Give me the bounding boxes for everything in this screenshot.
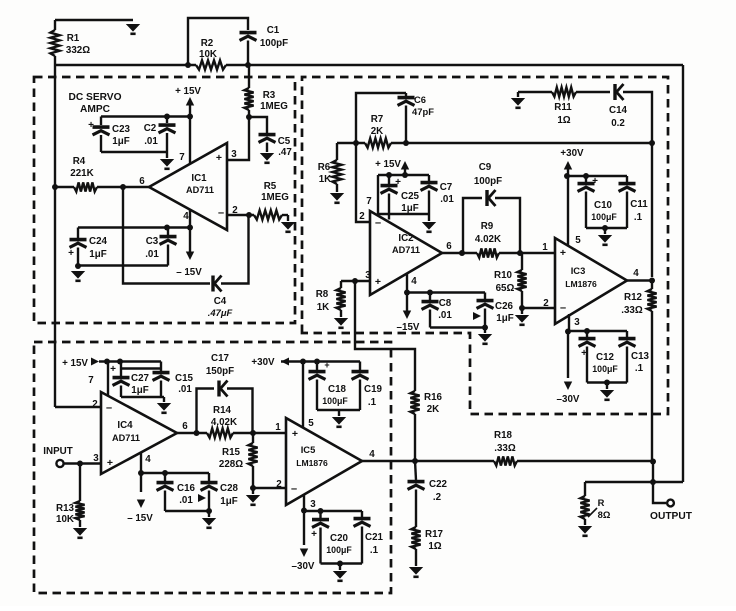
capacitor C3 <box>167 228 169 236</box>
capacitor C16 <box>164 473 166 481</box>
capacitor C28 <box>208 473 210 481</box>
resistor RL 8 ohm load <box>584 482 586 496</box>
wire +15V rail IC4 <box>99 360 161 362</box>
junction +30V <box>564 173 570 179</box>
capacitor C6 <box>398 98 415 106</box>
svg-text:C9: C9 <box>479 162 492 173</box>
svg-text:.1: .1 <box>634 212 643 223</box>
svg-text:.01: .01 <box>145 249 159 260</box>
wire IC5 pin2 <box>253 487 286 489</box>
junction C25/pin7 <box>386 172 392 178</box>
junction pin4/C8 box <box>404 290 410 296</box>
wire IC4 pin4 <box>140 452 142 473</box>
wire C6 loop <box>356 93 406 143</box>
svg-text:.1: .1 <box>368 397 377 408</box>
svg-text:R5: R5 <box>264 181 277 192</box>
svg-text:INPUT: INPUT <box>43 446 72 457</box>
svg-text:+: + <box>292 428 298 440</box>
svg-text:C16: C16 <box>177 483 196 494</box>
op-amp IC4 AD711 <box>101 392 177 474</box>
wire C10/C11 box bottom <box>586 227 627 229</box>
svg-text:.1: .1 <box>635 363 644 374</box>
svg-text:C15: C15 <box>175 373 194 384</box>
capacitor C20 <box>319 511 321 518</box>
resistor R7 <box>365 138 391 147</box>
wire C9 loop right <box>495 198 520 253</box>
wire IC4 pin7 <box>107 362 109 397</box>
junction pin2/C4 <box>246 212 252 218</box>
svg-text:100μF: 100μF <box>591 212 617 222</box>
junction R15 bottom <box>250 485 256 491</box>
wire C8 box bottom <box>430 326 485 328</box>
wire load line <box>585 481 683 483</box>
wire C23/C2 box top <box>101 115 190 117</box>
svg-text:+: + <box>68 248 74 259</box>
svg-text:IC4: IC4 <box>117 420 133 431</box>
capacitor C26 <box>484 293 486 300</box>
svg-text:C21: C21 <box>365 532 384 543</box>
wire C25/C7 box left-bottom <box>378 175 429 214</box>
svg-text:1μF: 1μF <box>401 203 418 214</box>
svg-text:+ 15V: + 15V <box>375 159 401 170</box>
svg-text:47pF: 47pF <box>412 106 434 117</box>
svg-text:.01: .01 <box>438 310 452 321</box>
svg-text:+: + <box>311 529 317 540</box>
wire IC4 pin6 <box>177 432 207 434</box>
svg-text:C13: C13 <box>631 351 650 362</box>
resistor R15 <box>252 433 254 443</box>
capacitor C27 <box>120 362 122 377</box>
capacitor C1 <box>240 33 257 41</box>
wire C12/C13 box bottom <box>587 381 627 383</box>
wire down to IC3 output node <box>651 143 653 277</box>
svg-text:C3: C3 <box>146 236 159 247</box>
wire right outer rail <box>682 65 684 482</box>
svg-text:4.02K: 4.02K <box>211 417 237 428</box>
wire C8 box top <box>407 291 485 293</box>
svg-text:2K: 2K <box>371 126 384 137</box>
wire +30V rail IC5 <box>281 360 360 362</box>
resistor R5 <box>254 210 282 219</box>
svg-text:8Ω: 8Ω <box>598 509 611 520</box>
junction pin4/R12 <box>649 278 655 284</box>
junction pin3 <box>565 329 571 335</box>
resistor R11 <box>552 87 576 96</box>
svg-text:1K: 1K <box>319 174 332 185</box>
capacitor C23 <box>100 117 102 126</box>
resistor R1 <box>54 20 56 30</box>
svg-text:C11: C11 <box>630 199 648 210</box>
junction R3 bottom <box>246 114 252 120</box>
wire C9 loop left <box>463 198 482 253</box>
wire C20 box bottom <box>321 562 363 564</box>
svg-text:C6: C6 <box>414 94 426 105</box>
wire mid rail right <box>391 142 652 144</box>
junction +15V <box>402 172 408 178</box>
svg-text:AMPC: AMPC <box>80 104 111 115</box>
junction C10 box ground <box>602 225 608 231</box>
resistor R17 <box>411 527 420 549</box>
wire R18 to output node <box>517 460 653 462</box>
ground C24 <box>71 271 85 281</box>
svg-text:.47μF: .47μF <box>208 307 233 318</box>
svg-text:.1: .1 <box>370 545 379 556</box>
svg-text:4: 4 <box>369 449 375 460</box>
svg-text:C5: C5 <box>278 136 291 147</box>
junction R4 left <box>52 184 58 190</box>
wire C27/C15 box bottom <box>121 396 164 398</box>
junction R7 left <box>353 140 359 146</box>
svg-text:LM1876: LM1876 <box>296 458 328 468</box>
right amplifier dashed box <box>302 77 668 414</box>
svg-text:R12: R12 <box>624 292 643 303</box>
svg-text:R2: R2 <box>201 38 214 49</box>
junction C17 left <box>194 430 200 436</box>
wire C25/C7 box top <box>378 174 429 176</box>
resistor R6 <box>336 143 338 160</box>
junction C12 <box>584 328 590 334</box>
junction C9 left <box>459 250 465 256</box>
junction R13 <box>77 461 83 467</box>
ground C12 box <box>600 390 614 400</box>
svg-text:3: 3 <box>310 499 316 510</box>
wire left rail <box>54 65 56 407</box>
capacitor C2 <box>166 117 168 124</box>
svg-text:7: 7 <box>88 375 94 386</box>
wire C20/C21 box top <box>304 510 362 512</box>
wire IC1 pin7 <box>189 117 191 165</box>
ground (top) <box>126 24 140 34</box>
resistor R16 <box>410 391 419 414</box>
wire IC2 pin2 <box>356 143 370 222</box>
ground C2 <box>160 159 174 169</box>
svg-text:–: – <box>106 402 112 414</box>
wire IC4 pin2 <box>55 406 101 408</box>
ground RL <box>578 526 592 536</box>
svg-text:R4: R4 <box>73 156 86 167</box>
ground C8 box <box>478 334 492 344</box>
svg-text:100pF: 100pF <box>260 38 288 49</box>
wire INPUT to pin3 <box>64 462 101 464</box>
svg-text:+: + <box>592 176 598 187</box>
capacitor C5 <box>259 135 276 143</box>
wire R11-C14 <box>576 91 610 93</box>
svg-text:2: 2 <box>92 399 98 410</box>
svg-text:–30V: –30V <box>557 394 580 405</box>
svg-text:+: + <box>324 360 329 370</box>
wire IC3 pin5 <box>567 176 569 245</box>
resistor R12 <box>651 281 653 290</box>
svg-text:C27: C27 <box>131 373 150 384</box>
svg-text:4: 4 <box>145 454 151 465</box>
ground R17 <box>409 567 423 577</box>
svg-text:C17: C17 <box>211 353 230 364</box>
svg-text:1μF: 1μF <box>131 385 148 396</box>
svg-text:C22: C22 <box>429 479 448 490</box>
svg-text:6: 6 <box>182 421 188 432</box>
wire IC2 pin3 <box>341 280 370 282</box>
svg-text:R18: R18 <box>494 430 513 441</box>
svg-text:R11: R11 <box>554 102 572 113</box>
svg-text:C4: C4 <box>214 296 227 307</box>
svg-text:–: – <box>291 483 297 495</box>
svg-text:1Ω: 1Ω <box>428 541 441 552</box>
capacitor C21 <box>361 511 363 517</box>
svg-text:.01: .01 <box>144 136 158 147</box>
junction C16 <box>162 470 168 476</box>
svg-text:+: + <box>375 276 381 288</box>
junction C6 bottom <box>403 140 409 146</box>
ground C15 <box>157 403 171 413</box>
svg-text:+: + <box>88 120 94 131</box>
wire C16 box bottom <box>165 510 209 512</box>
svg-text:R8: R8 <box>316 289 329 300</box>
wire R1 top to ground <box>55 19 133 21</box>
junction pin5 rail <box>300 359 306 365</box>
junction pin4/C16 box <box>138 470 144 476</box>
wire feedback to R16 <box>355 281 415 391</box>
svg-text:R1: R1 <box>67 33 80 44</box>
svg-text:332Ω: 332Ω <box>66 45 90 56</box>
wire IC3 pin2 <box>522 307 555 309</box>
ground R13 <box>73 528 87 538</box>
junction box top <box>164 114 170 120</box>
svg-text:65Ω: 65Ω <box>496 283 515 294</box>
capacitor C7 <box>428 175 430 181</box>
svg-text:.47: .47 <box>278 147 292 158</box>
svg-text:7: 7 <box>366 196 372 207</box>
svg-text:C10: C10 <box>594 200 613 211</box>
svg-text:– 15V: – 15V <box>127 513 153 524</box>
wire C4 loop <box>123 187 210 284</box>
junction C20 ground <box>337 561 343 567</box>
wire C23/C2 box bottom <box>101 151 167 153</box>
ground C5 <box>260 153 274 163</box>
svg-text:IC3: IC3 <box>571 265 586 276</box>
svg-text:+: + <box>395 177 401 188</box>
svg-text:100μF: 100μF <box>326 545 352 555</box>
junction pin7/+15V <box>187 114 193 120</box>
svg-text:4: 4 <box>411 276 417 287</box>
resistor R9 <box>477 248 499 257</box>
ground R10 <box>515 315 529 325</box>
junction rail/C14 <box>649 140 655 146</box>
resistor R14 <box>207 428 233 437</box>
svg-text:.33Ω: .33Ω <box>621 305 643 316</box>
svg-text:2: 2 <box>276 479 282 490</box>
svg-text:R9: R9 <box>481 221 494 232</box>
svg-text:2K: 2K <box>427 404 440 415</box>
svg-text:.01: .01 <box>178 384 192 395</box>
svg-text:C1: C1 <box>267 25 280 36</box>
svg-text:R13: R13 <box>56 503 75 514</box>
ground C16 box <box>202 518 216 528</box>
op-amp IC3 LM1876 <box>555 238 627 324</box>
capacitor C17 <box>219 381 228 397</box>
junction C20 <box>318 508 324 514</box>
resistor R4 <box>55 186 74 188</box>
svg-text:6: 6 <box>446 241 452 252</box>
capacitor C4 <box>213 276 222 292</box>
svg-text:228Ω: 228Ω <box>219 459 243 470</box>
svg-text:100pF: 100pF <box>474 176 502 187</box>
svg-text:R7: R7 <box>371 114 384 125</box>
svg-text:1: 1 <box>542 242 548 253</box>
svg-text:221K: 221K <box>70 168 93 179</box>
svg-text:+: + <box>560 247 566 259</box>
svg-text:R16: R16 <box>424 392 443 403</box>
svg-text:–30V: –30V <box>292 561 315 572</box>
svg-text:+: + <box>216 152 222 164</box>
svg-text:.01: .01 <box>440 194 454 205</box>
svg-text:R3: R3 <box>263 90 276 101</box>
junction C18 rail <box>314 359 320 365</box>
op-amp IC2 AD711 <box>370 211 442 295</box>
junction pin4/C3 box <box>187 225 193 231</box>
junction pin3 <box>301 508 307 514</box>
junction output <box>650 479 656 485</box>
svg-text:5: 5 <box>308 418 314 429</box>
svg-text:C19: C19 <box>364 384 383 395</box>
svg-text:C8: C8 <box>439 298 452 309</box>
wire IC5 pin3 <box>303 495 305 511</box>
resistor R8 <box>340 281 342 288</box>
svg-text:1: 1 <box>275 422 281 433</box>
svg-text:+: + <box>107 457 113 469</box>
svg-text:C25: C25 <box>401 191 420 202</box>
svg-text:DC SERVO: DC SERVO <box>68 92 121 103</box>
svg-text:IC2: IC2 <box>398 233 414 244</box>
junction C12 box ground <box>604 380 610 386</box>
junction R12/R18 <box>650 459 656 465</box>
svg-text:+ 15V: + 15V <box>175 86 201 97</box>
ground R11 <box>517 92 519 97</box>
svg-text:+30V: +30V <box>560 148 584 159</box>
svg-text:AD711: AD711 <box>392 245 420 255</box>
wire R2/C1 feedback loop <box>188 18 248 65</box>
wire IC5 pin4 output <box>362 460 494 462</box>
capacitor C19 <box>359 362 361 371</box>
resistor R2 <box>196 60 226 69</box>
svg-text:R15: R15 <box>222 447 241 458</box>
svg-text:1Ω: 1Ω <box>557 115 570 126</box>
bottom-left amplifier dashed box <box>34 342 391 593</box>
wire main top line left <box>55 64 196 66</box>
wire IC3 pin4 <box>627 279 652 281</box>
op-amp IC1 AD711 <box>149 143 227 230</box>
junction C1/R3 <box>245 62 251 68</box>
svg-text:R17: R17 <box>425 529 444 540</box>
wire IC3 pin3 <box>568 314 570 332</box>
svg-text:6: 6 <box>139 176 145 187</box>
junction C28 ground <box>206 508 212 514</box>
wire C24/C3 box bottom <box>78 264 168 266</box>
junction C8 top <box>427 290 433 296</box>
svg-text:.01: .01 <box>179 495 193 506</box>
svg-text:100μF: 100μF <box>322 396 348 406</box>
wire IC5 pin5 <box>302 362 304 429</box>
svg-text:1K: 1K <box>317 302 330 313</box>
svg-text:+: + <box>110 364 116 375</box>
wire C18 box bottom <box>317 409 360 411</box>
wire IC2 pin4 <box>406 273 408 303</box>
wire C17 loop left <box>197 389 215 434</box>
wire C4 loop right <box>221 215 249 284</box>
capacitor C22 <box>415 461 416 480</box>
svg-text:10K: 10K <box>56 514 74 525</box>
junction R10 bottom <box>519 305 525 311</box>
wire to output terminal <box>653 482 666 503</box>
junction R16/C22 <box>412 458 418 464</box>
svg-text:+30V: +30V <box>251 357 275 368</box>
capacitor C13 <box>626 331 628 337</box>
svg-text:C12: C12 <box>596 352 615 363</box>
capacitor C11 <box>626 176 628 182</box>
capacitor C12 <box>586 331 588 337</box>
svg-text:4: 4 <box>183 211 189 222</box>
svg-text:C2: C2 <box>144 123 157 134</box>
svg-text:1μF: 1μF <box>496 313 513 324</box>
wire R9 to IC3 pin1 <box>499 252 555 254</box>
svg-text:–: – <box>560 302 566 314</box>
op-amp IC5 LM1876 <box>286 418 362 505</box>
svg-text:1μF: 1μF <box>112 136 129 147</box>
svg-text:1MEG: 1MEG <box>261 192 289 203</box>
wire IC2 pin6 <box>442 252 477 254</box>
svg-text:10K: 10K <box>199 49 217 60</box>
ground C7 <box>422 222 436 232</box>
resistor R18 <box>494 456 517 465</box>
svg-text:2: 2 <box>543 298 549 309</box>
wire C10/C11 box top <box>567 175 627 177</box>
capacitor C10 <box>585 176 587 182</box>
svg-text:C28: C28 <box>220 483 239 494</box>
svg-text:7: 7 <box>179 152 185 163</box>
junction IC1 pin6 <box>120 184 126 190</box>
svg-text:C7: C7 <box>440 182 453 193</box>
svg-text:IC5: IC5 <box>301 444 316 455</box>
svg-text:AD711: AD711 <box>112 433 140 443</box>
junction R2 left <box>185 62 191 68</box>
junction R15 <box>250 430 256 436</box>
svg-text:3: 3 <box>231 149 237 160</box>
wire C27/C15 box top <box>121 367 161 369</box>
capacitor C24 <box>77 228 79 239</box>
wire to C5 <box>249 117 267 133</box>
svg-text:+: + <box>581 348 587 359</box>
svg-text:R10: R10 <box>494 270 513 281</box>
svg-text:1MEG: 1MEG <box>260 101 288 112</box>
wire mid rail <box>337 142 365 144</box>
DC servo amp dashed box <box>34 77 295 323</box>
capacitor C14 <box>615 84 624 100</box>
wire IC1 pin2 <box>227 214 254 216</box>
svg-text:.2: .2 <box>433 492 442 503</box>
resistor R10 <box>521 253 523 270</box>
capacitor C18 <box>316 362 318 371</box>
ground R6 <box>330 193 344 203</box>
output terminal <box>667 500 674 507</box>
wire C17 loop right <box>227 389 253 434</box>
ground R5 <box>281 222 295 232</box>
svg-text:5: 5 <box>575 235 581 246</box>
wire main top line <box>226 64 683 66</box>
svg-text:AD711: AD711 <box>186 185 214 195</box>
svg-text:.33Ω: .33Ω <box>494 443 516 454</box>
wire R11 line <box>518 91 552 93</box>
svg-text:LM1876: LM1876 <box>565 279 597 289</box>
svg-text:C18: C18 <box>328 384 347 395</box>
